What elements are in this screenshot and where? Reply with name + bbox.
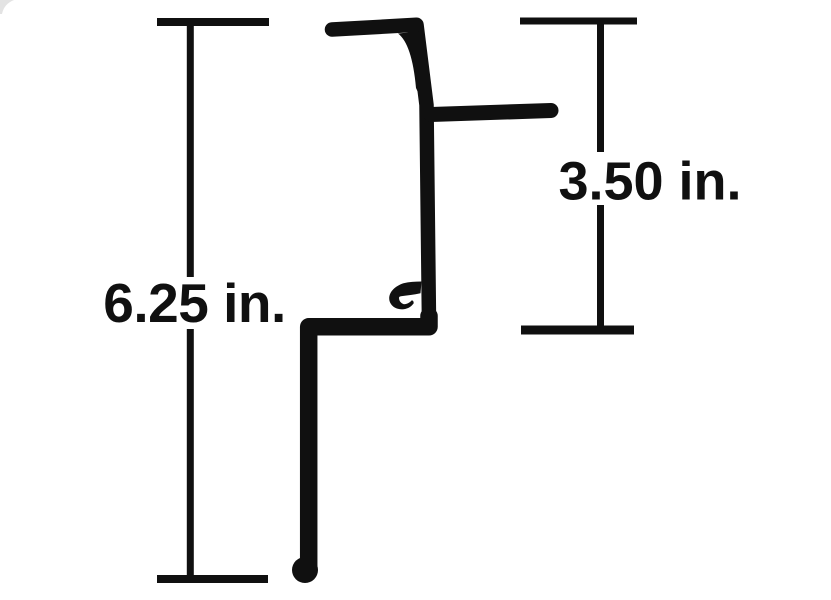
svg-text:6.25 in.: 6.25 in. bbox=[103, 272, 285, 334]
right dimension top tick bbox=[520, 18, 637, 25]
right dimension line upper segment bbox=[597, 24, 604, 152]
left dimension top tick bbox=[157, 18, 269, 26]
profile leg foot bulge bbox=[292, 557, 318, 583]
right dimension line lower segment bbox=[597, 205, 604, 326]
profile horizontal arm bbox=[431, 111, 551, 115]
profile bottom channel and leg bbox=[309, 316, 429, 571]
right dimension bottom tick bbox=[521, 326, 634, 335]
left dimension line lower segment bbox=[187, 329, 194, 575]
profile screw-boss curl bbox=[389, 282, 421, 310]
profile top flange and web (extrusion cross-section) bbox=[332, 25, 429, 322]
svg-text:3.50 in.: 3.50 in. bbox=[558, 152, 741, 212]
profile flange-web inner fillet bbox=[398, 31, 424, 105]
left dimension line upper segment bbox=[187, 26, 194, 277]
left dimension bottom tick bbox=[157, 575, 268, 583]
corner artifact smudge bbox=[0, 0, 14, 14]
